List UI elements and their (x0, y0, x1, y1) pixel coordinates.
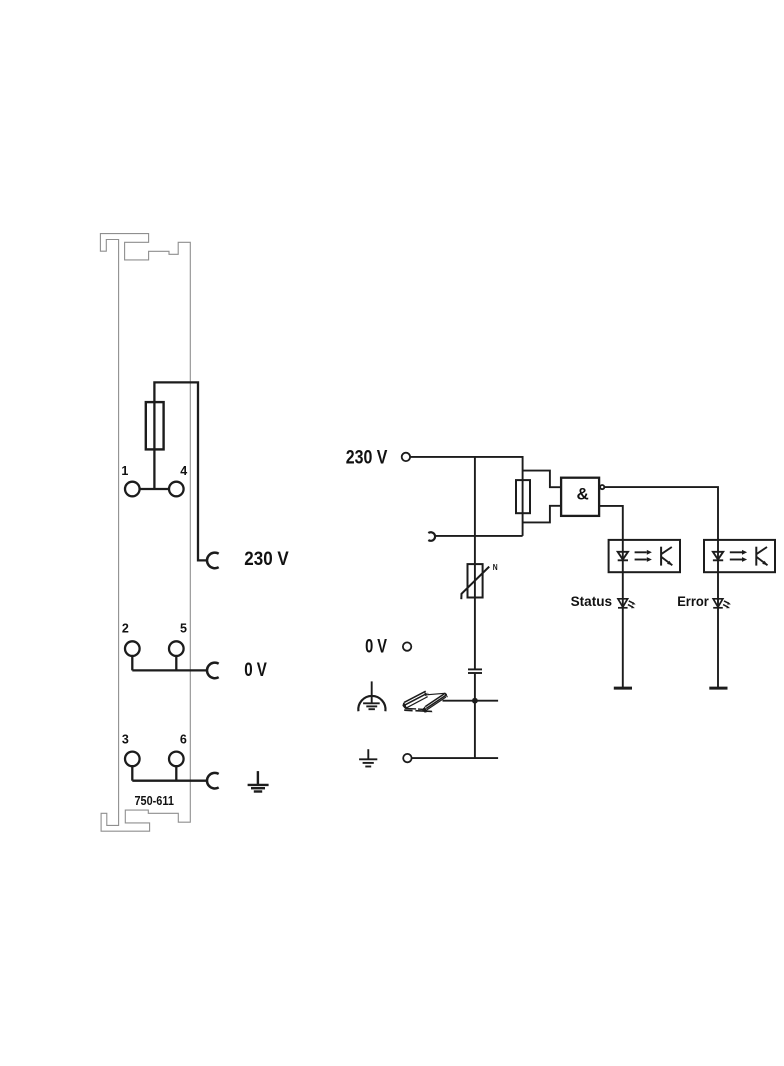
svg-text:0 V: 0 V (244, 660, 267, 681)
svg-text:1: 1 (121, 464, 128, 478)
svg-text:2: 2 (122, 622, 129, 636)
svg-text:750-611: 750-611 (135, 793, 174, 808)
svg-text:3: 3 (122, 733, 129, 747)
svg-text:230 V: 230 V (346, 447, 388, 468)
svg-text:0 V: 0 V (365, 637, 387, 658)
svg-text:&: & (576, 485, 588, 504)
svg-text:Status: Status (571, 593, 613, 609)
svg-text:4: 4 (180, 464, 187, 478)
svg-text:230 V: 230 V (244, 549, 289, 570)
svg-text:N: N (493, 562, 498, 572)
svg-text:6: 6 (180, 733, 187, 747)
svg-text:Error: Error (677, 593, 709, 609)
svg-text:5: 5 (180, 622, 187, 636)
